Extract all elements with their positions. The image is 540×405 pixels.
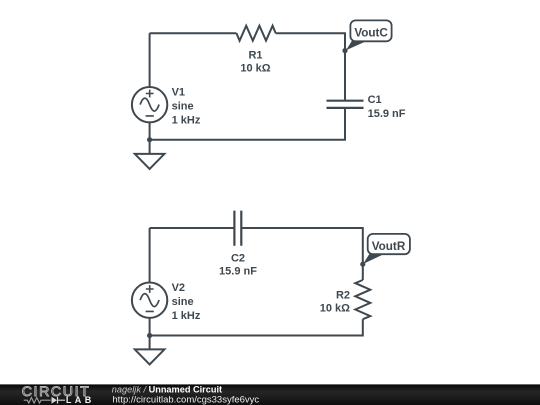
svg-text:15.9 nF: 15.9 nF (219, 266, 257, 278)
svg-text:VoutC: VoutC (354, 26, 388, 39)
svg-text:R2: R2 (336, 290, 350, 302)
svg-text:V1: V1 (172, 87, 185, 99)
svg-text:R1: R1 (248, 49, 262, 61)
svg-text:10 kΩ: 10 kΩ (320, 303, 350, 315)
svg-text:C2: C2 (231, 253, 245, 265)
svg-text:C1: C1 (368, 94, 382, 106)
svg-text:sine: sine (172, 296, 194, 308)
svg-text:VoutR: VoutR (372, 240, 406, 253)
svg-text:nageljk / Unnamed Circuit: nageljk / Unnamed Circuit (112, 385, 222, 395)
svg-text:LAB: LAB (66, 395, 95, 405)
svg-text:10 kΩ: 10 kΩ (240, 63, 270, 75)
svg-text:V2: V2 (172, 282, 185, 294)
svg-text:sine: sine (172, 101, 194, 113)
svg-text:http://circuitlab.com/cgs33syf: http://circuitlab.com/cgs33syfe6vyc (112, 394, 259, 405)
svg-text:1 kHz: 1 kHz (172, 310, 201, 322)
svg-text:15.9 nF: 15.9 nF (368, 108, 406, 120)
svg-text:1 kHz: 1 kHz (172, 114, 201, 126)
